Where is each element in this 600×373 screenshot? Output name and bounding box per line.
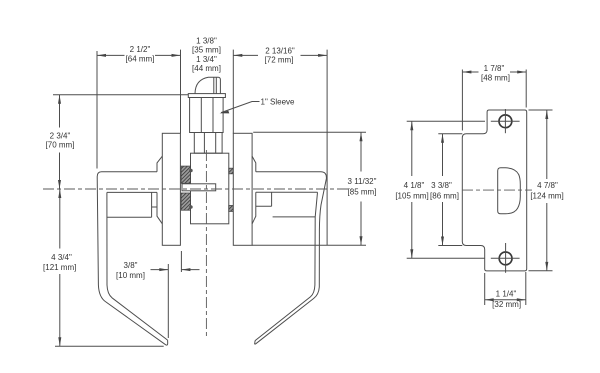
extension line right lever end	[326, 50, 328, 246]
svg-text:[35 mm]: [35 mm]	[192, 46, 221, 55]
extension line bottom lever tip	[55, 345, 164, 347]
dimension 2 3/4 [70 mm]	[46, 95, 75, 189]
dimension 1 1/4 [32 mm] plate width	[485, 272, 526, 309]
latch centerline	[462, 189, 532, 191]
dimension 4 7/8 [124 mm] plate height	[529, 110, 564, 271]
dimension 4 1/8 [105 mm] hole centers	[395, 121, 485, 258]
dimension 3 11/32 [85 mm] rose diameter	[252, 132, 377, 245]
svg-text:[48 mm]: [48 mm]	[481, 74, 510, 83]
right lever (arm + grip outer edge)	[255, 172, 327, 344]
svg-text:3/8": 3/8"	[124, 261, 138, 270]
chassis body	[191, 153, 229, 224]
dimension 2 1/2 [64 mm]	[97, 45, 181, 64]
svg-text:2 13/16": 2 13/16"	[265, 47, 295, 56]
svg-text:[44 mm]: [44 mm]	[192, 64, 221, 73]
svg-text:[64 mm]: [64 mm]	[126, 55, 155, 64]
svg-text:4 1/8": 4 1/8"	[404, 181, 425, 190]
latch bolt cutout (D shape)	[498, 168, 521, 214]
retractor bar through spindle	[182, 184, 216, 191]
bottom hole crosshair	[491, 257, 520, 259]
dimension door thickness 1 3/8 / 1 3/4	[192, 37, 221, 74]
dimension 3/8 [10 mm]	[116, 251, 199, 338]
svg-text:[105 mm]: [105 mm]	[395, 191, 428, 200]
dimension 3 3/8 [86 mm] flange height	[430, 134, 462, 246]
svg-text:[32 mm]: [32 mm]	[492, 300, 521, 309]
hatched spindle block lower left	[181, 193, 190, 210]
svg-text:[86 mm]: [86 mm]	[430, 191, 459, 200]
right lever hub	[252, 156, 272, 224]
svg-text:[10 mm]: [10 mm]	[116, 271, 145, 280]
faceplate outline	[462, 110, 526, 271]
bottom screw hole	[499, 252, 512, 265]
svg-text:4 3/4": 4 3/4"	[51, 253, 72, 262]
svg-text:3 3/8": 3 3/8"	[431, 181, 452, 190]
svg-text:1 7/8": 1 7/8"	[484, 64, 505, 73]
extension line top of sleeve	[53, 94, 188, 96]
sleeve neck	[194, 133, 222, 154]
dimension 4 3/4 [121 mm]	[43, 189, 76, 346]
right lever body block	[256, 192, 318, 217]
svg-text:[70 mm]: [70 mm]	[46, 141, 75, 150]
extension line left rose face	[180, 50, 182, 134]
left lever (arm + grip outer edge)	[97, 172, 168, 345]
left lever hub	[152, 156, 163, 224]
stud nub upper left	[189, 169, 193, 173]
extension line left of lever end	[96, 51, 98, 169]
hatched nub lower right of chassis	[229, 206, 234, 212]
left lever body block	[107, 192, 157, 217]
hatched nub upper right of chassis	[229, 168, 234, 174]
svg-text:1" Sleeve: 1" Sleeve	[261, 98, 296, 107]
left rose (edge view)	[162, 133, 180, 245]
svg-text:3 11/32": 3 11/32"	[348, 177, 377, 186]
1" Sleeve label with leader	[220, 98, 296, 114]
sleeve collar flange	[188, 94, 225, 98]
dimension 2 13/16 [72 mm]	[233, 47, 327, 65]
turn piece (thumbturn) on top of sleeve	[195, 77, 220, 93]
svg-text:1 1/4": 1 1/4"	[496, 290, 517, 299]
svg-text:[72 mm]: [72 mm]	[265, 56, 294, 65]
svg-text:[124 mm]: [124 mm]	[530, 191, 563, 200]
svg-text:2 3/4": 2 3/4"	[50, 131, 71, 140]
svg-text:1 3/8": 1 3/8"	[196, 37, 217, 46]
extension line right rose face	[232, 50, 234, 134]
svg-text:[121 mm]: [121 mm]	[43, 263, 76, 272]
svg-text:1 3/4": 1 3/4"	[196, 55, 217, 64]
svg-text:[85 mm]: [85 mm]	[348, 188, 377, 197]
vertical centerline	[205, 150, 207, 336]
stud nub lower left	[189, 205, 193, 209]
top hole crosshair	[491, 120, 520, 122]
hatched spindle block upper left	[181, 166, 190, 183]
right rose (edge view)	[233, 133, 252, 245]
dimension 1 7/8 [48 mm]	[462, 64, 526, 131]
svg-text:4 7/8": 4 7/8"	[537, 181, 558, 190]
horizontal centerline	[43, 188, 352, 190]
svg-text:2 1/2": 2 1/2"	[130, 45, 151, 54]
left lever grip inner edge	[107, 192, 168, 340]
1" sleeve body	[190, 98, 224, 133]
right lever grip inner edge	[255, 217, 315, 341]
top screw hole	[499, 115, 512, 128]
